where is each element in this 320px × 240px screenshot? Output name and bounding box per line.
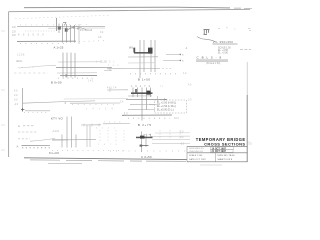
c3 deck blob <box>140 136 145 139</box>
sec3 upper faint hline <box>64 98 128 100</box>
sec4 dash row1 <box>23 125 35 127</box>
sec4 profile curve <box>30 138 55 141</box>
svg-text:2 4 2: 2 4 2 <box>108 65 120 67</box>
svg-text:-4: -4 <box>185 47 188 50</box>
border bottom main <box>24 158 187 160</box>
svg-text:a: a <box>182 54 184 57</box>
c1 deck small post <box>133 48 135 53</box>
right margin marks <box>249 141 251 145</box>
svg-text:-2.0: -2.0 <box>14 103 19 106</box>
sec3 axis vertical <box>22 88 24 112</box>
c3 vertical dashes <box>160 130 180 140</box>
c3 faint upper hline <box>155 132 190 134</box>
svg-text:B 2+75: B 2+75 <box>138 123 152 127</box>
c2 deck bar <box>131 92 153 94</box>
sec2 dark line cross tick <box>65 74 67 77</box>
paper top edge right dashes <box>234 7 252 9</box>
c3 tick row wide <box>110 150 186 152</box>
sec4 hline darker start <box>52 139 68 141</box>
svg-text:4.0: 4.0 <box>14 90 18 93</box>
sec4 dotted row bottom <box>22 147 50 149</box>
c3 dark dash bottom <box>141 145 149 147</box>
svg-text:A0.1: A0.1 <box>16 60 21 63</box>
svg-text:B 1+50: B 1+50 <box>138 78 151 82</box>
c2 dashed note box <box>155 100 187 113</box>
sec2 tick row <box>58 77 96 79</box>
sec4 hline <box>52 139 96 141</box>
border right <box>246 95 248 162</box>
c2 tick row <box>128 117 170 119</box>
sec1 deck diagonal <box>68 26 75 30</box>
c2 wl arrowhead <box>164 99 167 101</box>
titleblock bottom border <box>187 161 248 163</box>
sec2 piles <box>63 53 75 78</box>
svg-text:4.0: 4.0 <box>12 25 16 29</box>
sec2 right hline <box>104 70 112 72</box>
svg-text:DESIGNED BY: DESIGNED BY <box>189 148 204 150</box>
sec2 main hline <box>56 66 112 68</box>
sec3 tick row <box>24 112 48 114</box>
svg-text:EL.±0.00 (D.L.): EL.±0.00 (D.L.) <box>157 109 174 112</box>
sec3 right hline <box>107 89 128 91</box>
svg-text:10.4: 10.4 <box>174 117 179 120</box>
c1 deck bar <box>134 52 153 54</box>
svg-text:C.B.L 5 - 8: C.B.L 5 - 8 <box>197 56 223 60</box>
c1 leader1 <box>166 53 180 55</box>
sec3 tick marks on line <box>72 104 118 106</box>
c3 piles <box>142 132 146 153</box>
sec3 short gray line <box>25 110 50 112</box>
sec4 pile pair right <box>87 125 90 147</box>
svg-text:1 6 1 7 4: 1 6 1 7 4 <box>131 85 151 88</box>
c1 hline lower <box>107 67 160 69</box>
sec1 second hline <box>48 27 105 29</box>
svg-text:+ 4 + 1 4: + 4 + 1 4 <box>86 109 115 111</box>
c2 verticals <box>133 88 151 121</box>
detail speckles <box>218 28 251 31</box>
svg-text:-2.0: -2.0 <box>180 142 185 145</box>
svg-text:SCALE 1:100: SCALE 1:100 <box>189 154 203 157</box>
sec1 tick row below ground <box>20 43 64 45</box>
c3 hline mid <box>152 138 190 140</box>
svg-text:A 1+25: A 1+25 <box>54 46 64 50</box>
svg-text:KTY VO: KTY VO <box>51 117 64 121</box>
c1 tick row <box>130 73 176 75</box>
sec1 deck mark7 <box>63 23 66 26</box>
sec2 upper hline <box>58 61 100 63</box>
titleblock rule mid <box>187 152 248 154</box>
titleblock row2 value box <box>211 150 234 153</box>
c1 lower dashes right <box>162 67 172 69</box>
c1 lower hline tick <box>109 67 111 71</box>
svg-text:K1+00: K1+00 <box>49 151 59 155</box>
sec1 dots near ground right <box>79 41 104 42</box>
svg-text:2.0: 2.0 <box>14 94 18 97</box>
midband hline right <box>103 123 130 125</box>
below titleblock faint line <box>200 164 222 166</box>
c3 deck hatch marks <box>144 134 151 136</box>
below-border smudge <box>48 163 82 165</box>
c2 deck tick left <box>135 89 137 92</box>
sec1 dotted line <box>25 30 55 32</box>
svg-text:P.C 350x12: P.C 350x12 <box>80 29 93 32</box>
c2 deck underline <box>128 95 152 97</box>
svg-text:4 6 1 7 4: 4 6 1 7 4 <box>107 86 117 89</box>
c1 leader2 <box>163 59 180 61</box>
c3 dark foot <box>140 145 143 147</box>
svg-text:1 1: 1 1 <box>160 85 164 87</box>
c2 small vertical right <box>157 96 159 102</box>
left margin mark 4 <box>1 149 5 151</box>
detail dash right <box>240 48 251 50</box>
svg-text:1 2 1 2 1: 1 2 1 2 1 <box>96 61 116 63</box>
svg-text:A: A <box>18 124 20 128</box>
border bottom secondary <box>30 160 186 162</box>
midband dotted verticals <box>100 130 124 143</box>
titleblock left border <box>186 146 188 161</box>
svg-text:4.0: 4.0 <box>188 84 192 87</box>
c1 hline faint <box>128 62 155 64</box>
svg-text:A: A <box>17 145 19 149</box>
svg-text:0.0: 0.0 <box>180 136 184 139</box>
sec1 tick row above top line <box>20 24 88 26</box>
sec3 profile line <box>23 101 96 103</box>
svg-text:4 1 4 1: 4 1 4 1 <box>96 127 117 129</box>
svg-text:DWG. NO. TB-05: DWG. NO. TB-05 <box>218 155 236 157</box>
titleblock rule top <box>187 145 248 147</box>
c2 deck blob <box>147 91 151 95</box>
svg-text:1.2 0.6: 1.2 0.6 <box>17 54 25 57</box>
sec1 deck blob right <box>65 28 68 31</box>
sec1 ground line <box>17 40 76 42</box>
sec1 deck mast <box>56 18 58 31</box>
sec4 piles <box>62 117 76 148</box>
svg-text:2.0: 2.0 <box>12 29 16 33</box>
sec2 left sloped profile <box>19 65 56 68</box>
svg-text:2.4: 2.4 <box>120 100 124 103</box>
border right upper faint <box>246 62 248 95</box>
svg-text:(SCALE 1:50): (SCALE 1:50) <box>206 62 220 65</box>
svg-text:-A-101: -A-101 <box>52 130 60 133</box>
midband hline left <box>81 124 101 126</box>
c2 note leader <box>149 104 155 106</box>
border top <box>9 9 251 11</box>
sec1 piles <box>59 24 75 43</box>
detail underline <box>213 43 238 45</box>
svg-text:1.0: 1.0 <box>183 72 187 75</box>
border left <box>8 12 10 157</box>
svg-text:CROSS SECTIONS: CROSS SECTIONS <box>204 141 245 146</box>
svg-text:4.0 2.0 0.0: 4.0 2.0 0.0 <box>18 34 45 37</box>
sec3 ticked hline <box>70 102 120 104</box>
midband hline left ticks <box>84 124 99 127</box>
sec2 left dashed row <box>14 72 48 74</box>
svg-text:a: a <box>182 60 184 63</box>
sec3 right hline tick <box>109 88 111 92</box>
c3 hline upper <box>150 135 190 137</box>
faint diagonal dotted line top <box>15 15 110 18</box>
svg-text:0.4: 0.4 <box>100 31 104 34</box>
svg-text:1 4 1 4: 1 4 1 4 <box>98 144 119 146</box>
c1 piles <box>140 40 155 78</box>
svg-text:0.0: 0.0 <box>12 33 16 37</box>
sec3 plus mark <box>21 108 24 111</box>
c2 hline3 <box>128 109 155 111</box>
sec1 leader diagonal <box>76 26 86 30</box>
sec2 dark mid line <box>60 75 97 77</box>
paper top edge <box>24 6 230 9</box>
sec2 left dotted row upper <box>18 66 36 68</box>
c2 hline2 <box>130 104 160 106</box>
sec4 dash row2 <box>18 131 38 133</box>
c2 wl line with arrow <box>126 99 167 101</box>
c1 hline mid <box>128 56 158 58</box>
svg-text:DATE OCT. 1997: DATE OCT. 1997 <box>189 158 207 161</box>
svg-text:2.0: 2.0 <box>188 98 192 101</box>
titleblock cell divider <box>215 153 217 162</box>
svg-text:2-L 350x350: 2-L 350x350 <box>213 40 233 44</box>
svg-text:0.0: 0.0 <box>14 99 18 102</box>
left margin mark 1 <box>1 30 5 32</box>
svg-text:EL. +2.80: EL. +2.80 <box>218 52 229 54</box>
sec4 tick row <box>52 150 126 152</box>
svg-text:1 4 1: 1 4 1 <box>88 79 94 82</box>
titleblock row1 value box <box>211 147 234 150</box>
left margin mark 2 <box>1 89 5 91</box>
svg-text:SHEET 5 OF 8: SHEET 5 OF 8 <box>218 159 233 161</box>
detail glyph cluster <box>204 30 210 35</box>
c3 deck bar <box>136 137 153 139</box>
sec1 extra vertical <box>78 24 80 44</box>
c2 ground long line <box>122 114 172 116</box>
detail wavy leader <box>197 37 216 42</box>
detail title underline1 <box>196 59 228 61</box>
svg-text:1 4 1 4: 1 4 1 4 <box>104 122 122 124</box>
svg-text:0.8: 0.8 <box>98 36 102 39</box>
sec1 upper hline <box>17 25 105 27</box>
midband vertical dash pair <box>125 112 128 116</box>
sec4 solid line bottom <box>22 144 51 146</box>
c3 hline lower <box>152 142 190 144</box>
sec1 deck marks right <box>73 26 80 30</box>
sec4 dash row3 <box>18 138 30 140</box>
left margin mark 3 <box>1 124 5 126</box>
sec2 lower hline light <box>57 72 97 74</box>
svg-text:C 0+50: C 0+50 <box>141 155 152 159</box>
c1 deck end block <box>148 48 153 54</box>
sec1 deck blob left <box>58 26 61 29</box>
svg-text:B 0+00: B 0+00 <box>51 80 62 84</box>
detail title underline2 <box>196 60 228 62</box>
